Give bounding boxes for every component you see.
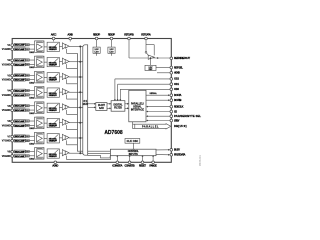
svg-text:LDO: LDO [109,51,114,53]
svg-text:DOUTB: DOUTB [174,98,182,102]
svg-text:AD7608: AD7608 [104,130,123,136]
svg-text:MUX: MUX [83,103,89,106]
svg-text:AGND: AGND [67,33,73,37]
svg-text:V6GND: V6GND [2,124,11,127]
svg-text:18-BIT: 18-BIT [98,105,106,107]
svg-text:REF SEL: REF SEL [174,65,183,69]
svg-text:V5GND: V5GND [2,109,11,112]
svg-text:DOUTA: DOUTA [174,93,182,97]
svg-text:BUSY: BUSY [174,148,180,152]
svg-text:DIGITAL: DIGITAL [113,103,123,106]
svg-text:RANGE: RANGE [149,163,157,167]
svg-text:CONVST B: CONVST B [125,163,135,167]
svg-text:V7GND: V7GND [2,140,11,143]
svg-text:LDO: LDO [94,51,99,53]
svg-text:AGND: AGND [52,163,58,167]
svg-text:SERIAL: SERIAL [133,105,142,108]
svg-text:OS 2: OS 2 [174,77,180,81]
svg-text:PARALLEL: PARALLEL [142,125,159,128]
svg-text:SAR: SAR [99,107,104,110]
svg-text:REFIN/REFOUT: REFIN/REFOUT [174,56,190,60]
svg-text:V2: V2 [7,59,11,62]
svg-text:V8: V8 [7,151,11,154]
svg-text:FILTER: FILTER [114,107,122,109]
svg-text:REFCAPB: REFCAPB [124,33,134,37]
svg-text:V4: V4 [7,90,11,93]
svg-text:DB[15:0]: DB[15:0] [174,124,187,128]
svg-text:V8GND: V8GND [2,155,11,158]
svg-text:V1: V1 [7,44,11,47]
svg-text:REFCAPA: REFCAPA [141,33,151,37]
svg-text:AVCC: AVCC [51,33,57,37]
svg-text:RESET: RESET [139,163,146,167]
svg-text:INTERFACE: INTERFACE [131,108,144,111]
svg-text:08076-001: 08076-001 [200,154,202,166]
svg-text:V4GND: V4GND [2,94,11,97]
svg-text:OS 0: OS 0 [174,87,180,91]
svg-text:REGCAP: REGCAP [108,33,115,37]
svg-text:SERIAL: SERIAL [150,92,158,95]
svg-text:V5: V5 [7,105,11,108]
svg-text:V6: V6 [7,120,11,123]
svg-text:PAR/SER/BYTE SEL: PAR/SER/BYTE SEL [174,114,201,118]
svg-text:CONVST A: CONVST A [112,163,122,167]
svg-text:AGND: AGND [174,71,180,75]
svg-text:STBY: STBY [174,118,180,122]
svg-text:CS: CS [174,109,177,113]
svg-text:V3: V3 [7,74,11,77]
svg-text:FRSTDATA: FRSTDATA [174,153,186,157]
svg-text:V2GND: V2GND [2,63,11,66]
svg-text:RD/SCLK: RD/SCLK [174,104,184,108]
svg-text:CLK OSC: CLK OSC [127,140,139,143]
svg-text:OS 1: OS 1 [174,82,180,86]
svg-text:V3GND: V3GND [2,79,11,82]
svg-text:REGCAP: REGCAP [93,33,100,37]
svg-text:V7: V7 [7,135,11,138]
svg-text:INPUTS: INPUTS [129,153,138,156]
svg-text:V1GND: V1GND [2,48,11,51]
svg-text:PARALLEL/: PARALLEL/ [131,102,144,105]
